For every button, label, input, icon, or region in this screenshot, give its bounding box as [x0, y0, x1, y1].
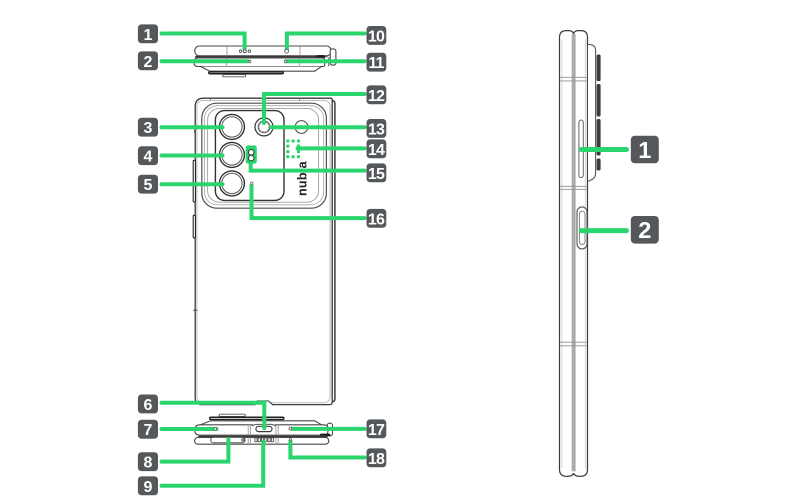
- bottom view: sim pin hole: [242, 439, 245, 442]
- back view: right sensor circle: [295, 121, 308, 134]
- side view: inner highlight lines: [562, 40, 586, 468]
- back view: lens 3: [219, 171, 244, 196]
- callout box 4: [138, 146, 158, 165]
- back view: front half right edge line: [333, 101, 335, 402]
- svg-text:10: 10: [368, 28, 385, 45]
- back view: camera island outer: [202, 103, 327, 208]
- callout box 7: [138, 420, 158, 439]
- top view: upper slab (front half edge): [195, 46, 331, 56]
- leader line 9: [162, 442, 264, 486]
- leader line 4: [162, 154, 223, 158]
- bottom view: lens ring edge small rect: [219, 414, 245, 416]
- back view: camera island plateau: [208, 108, 319, 202]
- top view: antenna ticks lower slab: [227, 58, 300, 66]
- svg-text:4: 4: [144, 149, 153, 166]
- side view: power button outer: [577, 207, 587, 249]
- top view: antenna ticks upper slab: [227, 46, 300, 55]
- back view: camera island rim line: [204, 106, 323, 205]
- bottom view: sim tray: [211, 437, 245, 442]
- svg-text:5: 5: [144, 177, 153, 194]
- bottom view: hole 18: [289, 439, 291, 441]
- svg-text:nubia: nubia: [295, 160, 309, 196]
- leader line 7: [162, 427, 217, 431]
- callout box 2: [138, 51, 158, 70]
- svg-text:2: 2: [144, 54, 153, 71]
- callout box 5: [138, 175, 158, 194]
- side view: center fold seam: [572, 34, 576, 472]
- leader line 1: [162, 34, 245, 50]
- leader line 11: [286, 59, 364, 63]
- callout box 18: [367, 448, 387, 467]
- bottom view: right camera-edge bump: [327, 423, 332, 436]
- leader line 12: [264, 94, 365, 123]
- svg-text:7: 7: [144, 422, 153, 439]
- top view: lens panel dark bar: [209, 72, 283, 74]
- bottom view: dark divider line: [199, 436, 327, 438]
- top view: lens ring edge small rect: [223, 75, 246, 77]
- top view: laser sensor hole: [285, 49, 289, 53]
- bottom view: dark corner of camera bump: [321, 434, 329, 437]
- side view: antenna line pair lower: [560, 342, 587, 346]
- callout box 14: [367, 139, 387, 158]
- svg-text:8: 8: [144, 455, 153, 472]
- back view: lens 2: [219, 142, 244, 167]
- back view: power key seen from back: [193, 215, 195, 238]
- leader line 3: [162, 125, 223, 129]
- back view: volume key seen from back: [193, 160, 195, 202]
- callout box 1: [138, 24, 158, 43]
- callout box 16: [367, 209, 387, 228]
- top view: screw dot left: [248, 60, 251, 63]
- leader line 5: [162, 182, 223, 186]
- leader line 14: [298, 146, 365, 150]
- top view: screw dot right: [284, 60, 287, 63]
- bottom view: camera island trapezoid edge: [201, 421, 321, 425]
- svg-text:1: 1: [638, 137, 651, 163]
- back view: phone outline: [195, 98, 332, 404]
- callout box 8: [138, 452, 158, 471]
- top view: dark divider line between halves: [196, 56, 318, 58]
- leader line 8: [162, 439, 229, 462]
- svg-text:15: 15: [368, 166, 385, 183]
- back view: lens panel: [215, 111, 284, 201]
- svg-text:6: 6: [144, 397, 153, 414]
- leader line side 2: [581, 228, 626, 233]
- bottom view: antenna ticks lower slab: [248, 438, 278, 444]
- callout box 10: [367, 26, 387, 45]
- bottom view: hole 17: [289, 427, 292, 430]
- svg-text:13: 13: [368, 121, 385, 138]
- callout box 13: [367, 119, 387, 138]
- leader line side 1: [581, 147, 626, 152]
- side view: antenna line pair middle: [560, 186, 587, 189]
- back view: flash camera circle: [255, 118, 273, 136]
- bottom view: lens panel dark bar: [210, 417, 284, 419]
- back view: left edge hinge tick: [194, 309, 198, 311]
- leader line 18: [290, 441, 364, 457]
- leader line 15: [251, 162, 365, 171]
- side view: lens edge dark bars: [597, 55, 601, 171]
- bottom view: usb-c port: [256, 426, 272, 431]
- callout box 3: [138, 118, 158, 137]
- svg-text:18: 18: [368, 451, 385, 468]
- green highlight: flash led block: [246, 145, 257, 163]
- callout box 6: [138, 395, 158, 414]
- svg-text:9: 9: [144, 479, 153, 496]
- back view: left edge small tick: [194, 131, 196, 133]
- svg-text:12: 12: [368, 88, 385, 105]
- back view: inner outline: [197, 100, 330, 402]
- side view: power button inner: [579, 211, 585, 244]
- callout box side 1: [631, 136, 659, 164]
- svg-text:1: 1: [144, 27, 153, 44]
- callout box 17: [367, 419, 387, 438]
- bottom view: antenna ticks usb slab: [248, 425, 278, 435]
- bottom view: usb slab (back half edge): [195, 425, 328, 435]
- top view: right edge line of back half: [328, 58, 330, 66]
- svg-text:11: 11: [368, 55, 384, 72]
- leader line 2: [162, 59, 248, 63]
- top view: mic holes: [239, 50, 241, 52]
- svg-text:2: 2: [638, 217, 651, 243]
- svg-text:3: 3: [144, 120, 153, 137]
- leader line 17: [292, 427, 365, 431]
- callout box 9: [138, 476, 158, 495]
- leader line 10: [287, 34, 365, 50]
- leader line 16: [252, 186, 365, 219]
- side view: antenna line pair top: [560, 77, 587, 81]
- bottom view: lower slab (front half edge): [195, 438, 329, 445]
- leader line 6: [162, 403, 265, 428]
- bottom view: usb raised platform: [253, 424, 275, 426]
- back view: bottom notch: [255, 401, 273, 407]
- side view: camera bump outline: [588, 45, 596, 182]
- svg-text:14: 14: [368, 142, 385, 159]
- side view: body outline with twin top bumps: [560, 31, 588, 477]
- leader line 13: [272, 125, 365, 129]
- back view: mic dot: [251, 182, 253, 184]
- callout box 11: [367, 53, 387, 72]
- top view: camera island trapezoid edge: [201, 67, 321, 72]
- top view: lower slab (back half edge): [194, 58, 325, 67]
- svg-text:16: 16: [368, 211, 385, 228]
- svg-text:17: 17: [368, 422, 385, 439]
- callout box 12: [367, 85, 387, 104]
- bottom view: speaker slots: [255, 438, 274, 442]
- callout box 15: [367, 163, 387, 182]
- top view: right camera-edge bump: [330, 49, 336, 65]
- back view: top edge ticks: [211, 99, 300, 101]
- back view: lens 1: [219, 114, 244, 139]
- callout box side 2: [631, 216, 659, 244]
- side view: volume rocker: [579, 120, 583, 178]
- bottom view: hole 7: [214, 428, 217, 431]
- green highlight: nfc dotted square: [286, 140, 300, 159]
